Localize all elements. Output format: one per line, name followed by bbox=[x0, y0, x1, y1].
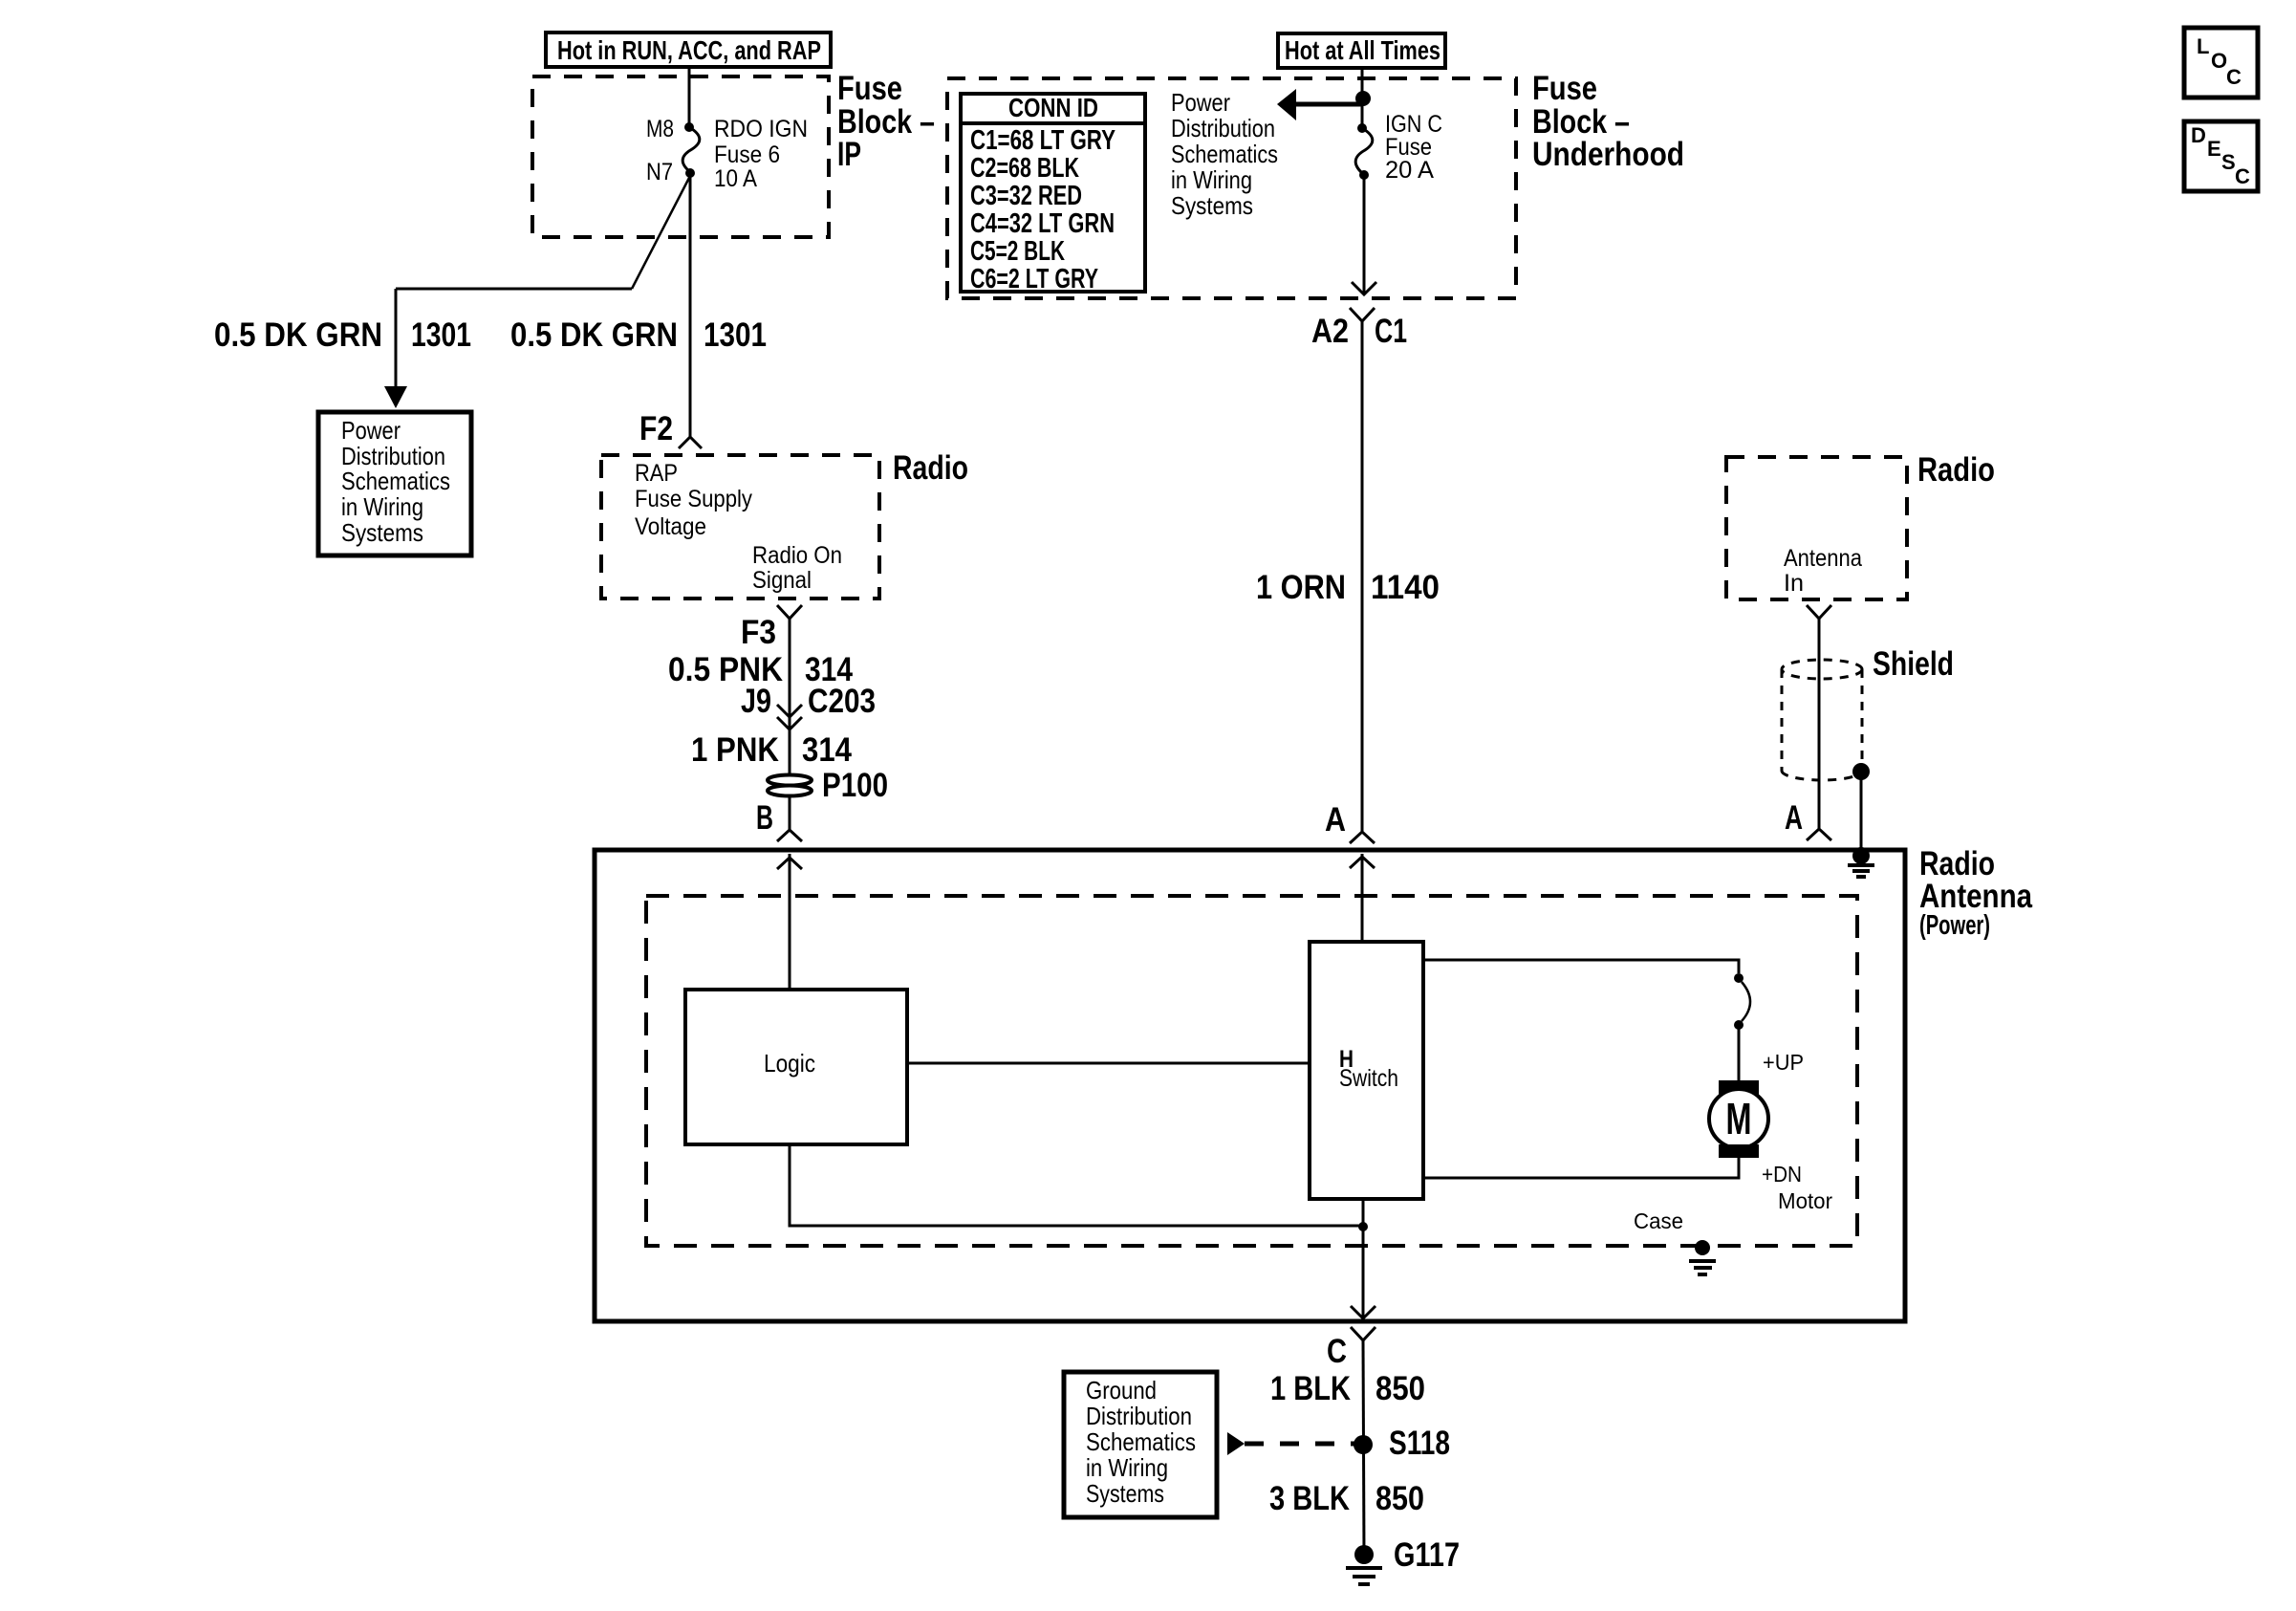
wire A inside radio antenna bbox=[1361, 854, 1364, 942]
svg-text:S: S bbox=[2221, 150, 2236, 174]
connector fork antenna out bbox=[1807, 605, 1831, 619]
svg-text:1301: 1301 bbox=[411, 316, 471, 354]
svg-text:10 A: 10 A bbox=[714, 165, 757, 192]
wire from Hot at All Times down bbox=[1361, 68, 1364, 128]
svg-text:1 ORN: 1 ORN bbox=[1256, 569, 1346, 606]
svg-text:L: L bbox=[2197, 34, 2209, 58]
ground symbol case bbox=[1689, 1261, 1716, 1274]
svg-text:N7: N7 bbox=[646, 159, 673, 185]
wire C down to G117 bbox=[1363, 1340, 1364, 1555]
arrow chevron A inside bbox=[1350, 857, 1375, 868]
svg-text:20 A: 20 A bbox=[1385, 157, 1434, 184]
svg-text:A: A bbox=[1785, 799, 1803, 837]
svg-text:C6=2 LT GRY: C6=2 LT GRY bbox=[970, 264, 1098, 294]
loc tab box bbox=[2184, 28, 2258, 98]
shield drain wire bbox=[1860, 772, 1863, 852]
svg-text:IP: IP bbox=[837, 136, 861, 173]
svg-text:Switch: Switch bbox=[1339, 1065, 1398, 1092]
svg-text:+DN: +DN bbox=[1762, 1162, 1802, 1186]
arrowhead left bbox=[1277, 89, 1296, 120]
connector fork B bbox=[777, 830, 802, 841]
svg-text:B: B bbox=[756, 799, 773, 837]
svg-text:Hot at All Times: Hot at All Times bbox=[1285, 35, 1440, 65]
svg-text:C5=2 BLK: C5=2 BLK bbox=[970, 236, 1065, 267]
svg-text:(Power): (Power) bbox=[1919, 910, 1990, 941]
svg-text:Motor: Motor bbox=[1778, 1188, 1832, 1213]
arrow chevron B inside bbox=[777, 858, 802, 869]
svg-text:Radio: Radio bbox=[1917, 451, 1995, 489]
svg-text:Voltage: Voltage bbox=[635, 513, 706, 540]
svg-text:Systems: Systems bbox=[341, 518, 423, 547]
wire motor bottom to H switch bbox=[1423, 1158, 1739, 1178]
svg-text:1301: 1301 bbox=[704, 316, 767, 354]
svg-text:+UP: +UP bbox=[1763, 1050, 1804, 1075]
wire H switch top to limit switch bbox=[1423, 960, 1739, 973]
arrow line to power distribution ref bbox=[1292, 102, 1363, 107]
svg-text:O: O bbox=[2211, 49, 2227, 73]
connector C203 chevrons bbox=[777, 705, 802, 729]
connector fork A center bbox=[1350, 832, 1375, 843]
antenna lead wire bbox=[1818, 619, 1821, 829]
desc tab box bbox=[2184, 121, 2258, 191]
connector fork A2 C1 bbox=[1350, 308, 1375, 321]
svg-text:Power: Power bbox=[1171, 88, 1230, 117]
svg-text:Hot in RUN, ACC, and RAP: Hot in RUN, ACC, and RAP bbox=[557, 35, 821, 65]
svg-text:Radio: Radio bbox=[893, 449, 968, 487]
svg-text:G117: G117 bbox=[1394, 1536, 1460, 1574]
svg-text:Systems: Systems bbox=[1171, 191, 1253, 220]
wire diagonal from N7 bbox=[632, 176, 690, 289]
svg-text:0.5 DK GRN: 0.5 DK GRN bbox=[510, 316, 678, 354]
shield dashed cylinder bbox=[1782, 660, 1862, 780]
fuse RDO IGN Fuse 6 10A bbox=[682, 127, 700, 171]
wire A2C1 down to antenna A bbox=[1361, 321, 1364, 832]
svg-text:C3=32 RED: C3=32 RED bbox=[970, 181, 1082, 211]
limit switch blade arc bbox=[1742, 982, 1750, 1021]
dashed reference arrowhead bbox=[1227, 1432, 1245, 1455]
logic module box bbox=[685, 990, 907, 1144]
CONN ID table box bbox=[961, 94, 1145, 292]
svg-text:A2: A2 bbox=[1311, 313, 1349, 350]
svg-text:1 BLK: 1 BLK bbox=[1270, 1370, 1351, 1407]
svg-text:Schematics: Schematics bbox=[1086, 1427, 1196, 1456]
label box Hot in RUN, ACC, and RAP bbox=[546, 33, 831, 67]
radio RAP dashed box bbox=[601, 455, 879, 599]
node limit switch top bbox=[1734, 973, 1744, 983]
motor M brushes and body bbox=[1709, 1080, 1768, 1158]
label box Hot at All Times bbox=[1278, 33, 1445, 68]
svg-text:S118: S118 bbox=[1389, 1425, 1450, 1462]
svg-text:Radio On: Radio On bbox=[752, 542, 842, 569]
svg-text:C: C bbox=[2235, 164, 2250, 188]
svg-text:D: D bbox=[2191, 123, 2206, 147]
wire logic bottom to junction bbox=[790, 1144, 1363, 1226]
node limit switch bottom bbox=[1734, 1020, 1744, 1030]
svg-text:C203: C203 bbox=[808, 683, 876, 720]
svg-text:1 PNK: 1 PNK bbox=[691, 731, 779, 769]
arrow chevron exiting underhood bbox=[1352, 282, 1376, 294]
svg-text:Shield: Shield bbox=[1873, 645, 1954, 683]
fuse block IP dashed box bbox=[532, 76, 829, 237]
node fuse IGN C top bbox=[1357, 123, 1367, 133]
wire from Hot in RUN box to fuse M8 bbox=[688, 67, 691, 127]
svg-text:CONN ID: CONN ID bbox=[1008, 93, 1098, 122]
svg-text:Fuse 6: Fuse 6 bbox=[714, 142, 780, 168]
node N7 bbox=[685, 168, 695, 178]
svg-text:1140: 1140 bbox=[1371, 569, 1440, 606]
svg-text:Fuse Supply: Fuse Supply bbox=[635, 486, 752, 512]
wire fuse down to underhood border bbox=[1363, 175, 1366, 294]
svg-text:in Wiring: in Wiring bbox=[1171, 165, 1252, 194]
node fuse IGN C bottom bbox=[1359, 170, 1369, 180]
node chassis on radio antenna case bbox=[1852, 847, 1870, 864]
svg-text:In: In bbox=[1784, 570, 1804, 597]
svg-text:C: C bbox=[1327, 1333, 1347, 1370]
svg-text:C1: C1 bbox=[1375, 313, 1407, 350]
svg-text:M: M bbox=[1726, 1094, 1752, 1143]
wire down to arrow bbox=[395, 289, 398, 388]
node M8 bbox=[684, 122, 694, 132]
ground symbol G117 bbox=[1346, 1568, 1382, 1584]
reference box Ground Distribution bbox=[1064, 1372, 1217, 1517]
wire logic to H switch bbox=[907, 1062, 1310, 1065]
connector fork C bbox=[1351, 1327, 1375, 1340]
svg-text:C1=68 LT GRY: C1=68 LT GRY bbox=[970, 125, 1116, 156]
connector fork A antenna bbox=[1807, 829, 1831, 840]
svg-text:Distribution: Distribution bbox=[1086, 1402, 1192, 1430]
svg-text:P100: P100 bbox=[822, 767, 888, 804]
svg-text:0.5 DK GRN: 0.5 DK GRN bbox=[214, 316, 382, 354]
arrow chevron C exiting bbox=[1351, 1306, 1375, 1318]
radio antenna inner dashed box bbox=[646, 896, 1857, 1246]
connector fork F2 bbox=[679, 437, 702, 448]
node splice S118 bbox=[1354, 1435, 1373, 1454]
node arrow branch bbox=[1355, 91, 1371, 106]
wire from N7 down to F2 bbox=[689, 171, 692, 437]
fuse block underhood dashed box bbox=[947, 78, 1516, 298]
svg-text:J9: J9 bbox=[741, 683, 771, 720]
svg-text:C: C bbox=[2226, 65, 2242, 89]
wire H switch bottom down bbox=[1362, 1199, 1365, 1318]
wire horizontal left branch bbox=[396, 288, 632, 291]
svg-text:Fuse: Fuse bbox=[1532, 70, 1597, 107]
connector fork RAP exit bbox=[777, 605, 802, 619]
svg-text:F2: F2 bbox=[639, 410, 673, 447]
svg-text:850: 850 bbox=[1375, 1480, 1424, 1517]
svg-text:Underhood: Underhood bbox=[1532, 136, 1684, 173]
arrowhead down to power ref box bbox=[384, 386, 407, 408]
H switch box bbox=[1310, 942, 1423, 1199]
svg-text:RDO IGN: RDO IGN bbox=[714, 116, 808, 142]
svg-text:Fuse: Fuse bbox=[837, 70, 902, 107]
svg-text:Schematics: Schematics bbox=[1171, 140, 1278, 168]
radio antenna-in dashed box bbox=[1726, 457, 1907, 599]
svg-text:in Wiring: in Wiring bbox=[341, 492, 423, 521]
node junction below H switch bbox=[1358, 1222, 1368, 1231]
svg-text:Systems: Systems bbox=[1086, 1479, 1164, 1508]
svg-text:Signal: Signal bbox=[752, 567, 812, 594]
svg-text:A: A bbox=[1325, 801, 1346, 838]
svg-text:Logic: Logic bbox=[764, 1049, 815, 1078]
svg-text:850: 850 bbox=[1375, 1370, 1425, 1407]
svg-text:Ground: Ground bbox=[1086, 1376, 1157, 1404]
node ground G117 bbox=[1354, 1545, 1374, 1564]
svg-text:Distribution: Distribution bbox=[1171, 114, 1275, 142]
svg-text:RAP: RAP bbox=[635, 460, 678, 487]
fuse IGN C 20A bbox=[1355, 128, 1373, 173]
wire below P100 bbox=[789, 796, 791, 830]
node shield drain bbox=[1852, 763, 1870, 780]
svg-text:314: 314 bbox=[802, 731, 852, 769]
dashed reference line to S118 bbox=[1245, 1442, 1357, 1447]
node case ground bbox=[1695, 1240, 1710, 1255]
svg-text:3 BLK: 3 BLK bbox=[1269, 1480, 1350, 1517]
svg-text:F3: F3 bbox=[741, 614, 776, 651]
CONN ID table header line bbox=[961, 121, 1145, 125]
wire limit switch to motor bbox=[1738, 1025, 1741, 1080]
svg-text:C2=68 BLK: C2=68 BLK bbox=[970, 153, 1079, 184]
svg-text:Case: Case bbox=[1634, 1208, 1683, 1233]
radio antenna power outer box bbox=[595, 850, 1905, 1321]
svg-text:C4=32 LT GRN: C4=32 LT GRN bbox=[970, 208, 1115, 239]
svg-text:Antenna: Antenna bbox=[1784, 545, 1862, 572]
wire RAP box down to P100 bbox=[789, 619, 791, 775]
svg-text:E: E bbox=[2207, 137, 2221, 161]
svg-text:M8: M8 bbox=[646, 116, 674, 142]
svg-text:Power: Power bbox=[341, 416, 401, 445]
wire B inside radio antenna bbox=[789, 854, 791, 990]
svg-text:in Wiring: in Wiring bbox=[1086, 1453, 1168, 1482]
reference box Power Distribution bbox=[318, 412, 471, 555]
svg-text:Schematics: Schematics bbox=[341, 467, 450, 495]
grommet P100 bbox=[768, 775, 812, 796]
ground symbol at case top bbox=[1848, 865, 1874, 877]
